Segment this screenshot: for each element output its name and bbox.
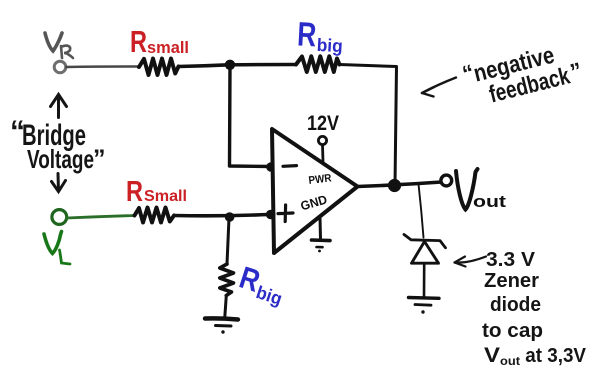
ground (zener): [409, 298, 440, 314]
wire 12V to op-amp: [321, 145, 324, 162]
ground (bottom): [205, 318, 238, 333]
label Vout: [456, 169, 506, 211]
svg-text:out: out: [473, 192, 506, 211]
resistor R_big (bottom): [220, 264, 234, 296]
wire Rbig to ground (bottom): [225, 296, 227, 318]
wire Rsmall to node A: [179, 65, 230, 67]
svg-text:3.3 V: 3.3 V: [486, 249, 536, 271]
junction inverting input: [266, 162, 276, 172]
wire node A to Rbig: [230, 63, 296, 67]
arrow zener note: [455, 257, 487, 267]
svg-text:small: small: [147, 38, 189, 57]
node B (junction): [225, 212, 235, 222]
terminal VR: [54, 61, 66, 73]
svg-text:diode: diode: [490, 294, 541, 316]
terminal Vout: [441, 175, 452, 186]
ground (op-amp): [312, 240, 331, 252]
wire VR to Rsmall: [67, 65, 140, 68]
label R_big (bottom): [235, 260, 290, 309]
zener diode D1: [404, 235, 446, 264]
wire Rsmall to noninverting input: [174, 215, 268, 216]
svg-text:big: big: [316, 35, 343, 56]
resistor R_small (top): [139, 59, 179, 76]
resistor R_big (feedback): [296, 56, 340, 72]
svg-text:Vout at 3,3V: Vout at 3,3V: [484, 344, 587, 368]
label R_big (feedback): [296, 15, 344, 56]
node A (junction): [225, 60, 235, 70]
svg-text:Zener: Zener: [484, 270, 539, 292]
label VR: [45, 33, 73, 58]
arrow negative feedback: [422, 78, 456, 97]
plus sign (noninverting input): [278, 205, 293, 222]
svg-text:R: R: [126, 176, 143, 208]
arrow up (bridge voltage): [51, 95, 67, 118]
label VL: [44, 232, 70, 265]
wire feedback (Rbig to output node): [340, 65, 397, 186]
svg-text:to cap: to cap: [482, 320, 543, 342]
wire output: [358, 182, 442, 187]
wire node A to inverting input: [230, 65, 272, 167]
wire zener to ground: [423, 263, 426, 296]
svg-text:R: R: [130, 24, 147, 59]
svg-text:Voltage: Voltage: [27, 144, 94, 174]
junction noninverting input: [266, 210, 276, 220]
svg-text:”: ”: [93, 145, 106, 173]
svg-text:Small: Small: [144, 188, 187, 205]
label R_small (top): [130, 24, 189, 59]
annotation zener note: [482, 249, 587, 368]
op-amp U1 triangle: [272, 129, 358, 253]
svg-text:R: R: [296, 15, 317, 54]
annotation "negative feedback": [460, 34, 585, 113]
pin 12V supply circle: [318, 136, 326, 144]
label R_small (bottom): [126, 176, 187, 208]
svg-text:12V: 12V: [307, 112, 339, 135]
wire VL (green): [67, 216, 135, 219]
node output junction: [388, 179, 401, 192]
arrow down (bridge voltage): [52, 174, 66, 192]
resistor R_small (bottom): [135, 208, 175, 223]
label Bridge Voltage: [10, 115, 106, 174]
minus sign (inverting input): [283, 164, 297, 168]
wire zener stem: [419, 184, 424, 238]
wire op-amp ground pin: [319, 218, 323, 240]
terminal VL: [52, 210, 67, 225]
wire node B to Rbig (bottom): [227, 218, 229, 264]
